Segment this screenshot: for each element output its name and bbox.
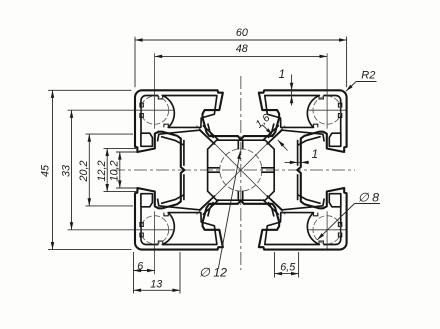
svg-text:1: 1 <box>312 148 318 161</box>
svg-text:∅ 8: ∅ 8 <box>358 190 379 204</box>
svg-text:R2: R2 <box>361 70 375 82</box>
svg-text:20,2: 20,2 <box>78 160 90 182</box>
svg-text:60: 60 <box>236 27 248 39</box>
svg-text:13: 13 <box>150 278 162 290</box>
svg-text:12,2: 12,2 <box>96 160 108 181</box>
svg-text:45: 45 <box>39 164 51 177</box>
svg-text:∅ 12: ∅ 12 <box>199 266 227 280</box>
svg-text:6: 6 <box>137 260 143 272</box>
svg-text:1: 1 <box>279 68 285 81</box>
svg-text:10,2: 10,2 <box>109 160 121 181</box>
svg-text:33: 33 <box>60 165 72 177</box>
svg-text:6,5: 6,5 <box>280 262 296 274</box>
svg-text:48: 48 <box>236 43 248 55</box>
